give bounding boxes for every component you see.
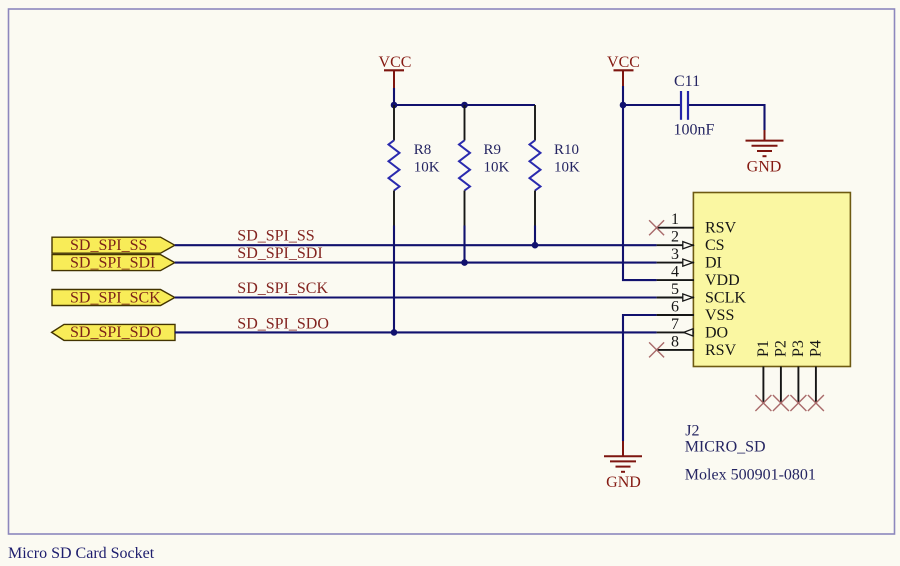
svg-text:MICRO_SD: MICRO_SD [685, 438, 766, 455]
svg-text:SD_SPI_SDI: SD_SPI_SDI [237, 245, 322, 262]
svg-text:P3: P3 [790, 340, 807, 357]
junction rail/R9 [461, 102, 468, 109]
svg-text:CS: CS [705, 237, 725, 254]
svg-text:1: 1 [671, 211, 679, 228]
port SD_SPI_SDO [52, 324, 175, 341]
pin 5 SCLK [657, 281, 747, 307]
pin P4 [808, 340, 825, 403]
wire SCK net [175, 296, 657, 298]
wire VCC rail stub [393, 88, 395, 106]
svg-text:P1: P1 [755, 340, 772, 357]
svg-text:J2: J2 [685, 422, 699, 439]
wire SDI net [175, 262, 657, 264]
svg-text:C11: C11 [674, 73, 700, 90]
svg-text:SD_SPI_SCK: SD_SPI_SCK [237, 280, 328, 297]
no-connect X pin 1 [649, 220, 664, 235]
port SD_SPI_SCK [52, 289, 175, 306]
junction R9/SDI [461, 259, 468, 266]
svg-text:SD_SPI_SS: SD_SPI_SS [70, 237, 147, 254]
junction R8/SDO [391, 329, 398, 336]
junction R10/SS [532, 242, 539, 249]
svg-text:RSV: RSV [705, 342, 737, 359]
capacitor C11 [674, 73, 715, 138]
resistor R10 [530, 105, 581, 226]
power VCC (IC supply) [607, 54, 640, 86]
wire VCC stub [622, 86, 624, 105]
no-connect X pin P4 [808, 395, 824, 411]
pin 2 CS [657, 229, 725, 255]
svg-text:P2: P2 [773, 340, 790, 357]
svg-text:5: 5 [671, 281, 679, 298]
wire R9 to SDI net [463, 226, 465, 263]
wire VCC to VDD pin [623, 105, 657, 280]
svg-text:VCC: VCC [607, 54, 640, 71]
no-connect X pin 8 [649, 342, 664, 357]
svg-text:SD_SPI_SDI: SD_SPI_SDI [70, 254, 155, 271]
pin P1 [755, 340, 772, 403]
svg-text:10K: 10K [554, 160, 580, 176]
pin 1 RSV [657, 211, 737, 237]
svg-text:VSS: VSS [705, 307, 734, 324]
pin 3 DI [657, 246, 722, 272]
svg-text:GND: GND [747, 158, 782, 175]
svg-text:SD_SPI_SDO: SD_SPI_SDO [70, 324, 162, 341]
no-connect X pin P1 [755, 395, 771, 411]
svg-text:10K: 10K [414, 160, 440, 176]
svg-text:7: 7 [671, 316, 679, 333]
svg-text:P4: P4 [808, 340, 825, 357]
svg-text:SD_SPI_SCK: SD_SPI_SCK [70, 289, 161, 306]
power VCC (pull-up rail) [379, 54, 412, 88]
svg-text:4: 4 [671, 264, 679, 281]
svg-text:GND: GND [606, 474, 641, 491]
wire C11 to GND [689, 105, 765, 130]
svg-text:RSV: RSV [705, 220, 737, 237]
svg-text:VDD: VDD [705, 272, 740, 289]
wire VCC to C11 [623, 104, 680, 106]
junction rail/R8 [391, 102, 398, 109]
svg-text:SCLK: SCLK [705, 290, 746, 307]
svg-text:SD_SPI_SDO: SD_SPI_SDO [237, 315, 329, 332]
pin 8 RSV [657, 333, 737, 359]
junction VCC node [620, 102, 627, 109]
svg-text:R8: R8 [414, 142, 432, 158]
svg-text:SD_SPI_SS: SD_SPI_SS [237, 228, 314, 245]
svg-text:Micro SD Card Socket: Micro SD Card Socket [8, 545, 155, 562]
svg-text:DO: DO [705, 324, 728, 341]
svg-text:6: 6 [671, 299, 679, 316]
wire SS net [175, 244, 657, 246]
no-connect X pin P2 [773, 395, 789, 411]
port SD_SPI_SDI [52, 254, 175, 271]
pin P3 [790, 340, 807, 403]
pin 6 VSS [657, 299, 735, 325]
svg-text:R10: R10 [554, 142, 579, 158]
wire R8 to SDO net [393, 226, 395, 333]
svg-text:3: 3 [671, 246, 679, 263]
resistor R9 [459, 105, 510, 226]
svg-text:10K: 10K [484, 160, 510, 176]
svg-text:100nF: 100nF [674, 121, 715, 138]
pin 7 DO [657, 316, 729, 342]
svg-text:R9: R9 [484, 142, 502, 158]
pin P2 [773, 340, 790, 403]
no-connect X pin P3 [790, 395, 806, 411]
wire top rail [393, 104, 535, 106]
resistor R8 [389, 105, 440, 226]
ground GND (C11) [746, 130, 784, 175]
svg-text:VCC: VCC [379, 54, 412, 71]
IC J2 body [693, 193, 850, 367]
port SD_SPI_SS [52, 237, 175, 254]
ground GND (VSS) [604, 441, 642, 491]
svg-text:2: 2 [671, 229, 679, 246]
svg-text:8: 8 [671, 333, 679, 350]
svg-text:Molex 500901-0801: Molex 500901-0801 [685, 467, 816, 484]
pin 4 VDD [657, 264, 740, 290]
wire VSS to GND [623, 315, 657, 441]
wire SDO net [175, 331, 657, 333]
svg-text:DI: DI [705, 255, 722, 272]
wire R10 to SS net [534, 226, 536, 246]
